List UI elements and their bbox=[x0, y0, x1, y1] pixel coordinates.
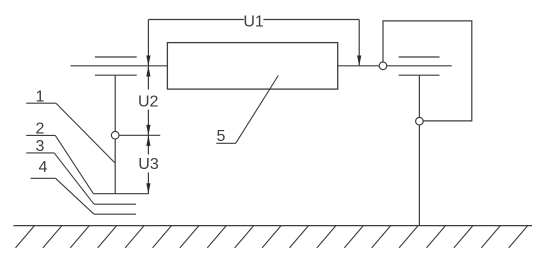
dimension line U2 bbox=[146, 66, 150, 135]
leader line 2 bbox=[26, 135, 93, 193]
wire main electrode left bbox=[71, 65, 168, 67]
wire feedback loop bbox=[383, 21, 472, 121]
extension line at node A bbox=[119, 134, 160, 136]
wire rod left upper bbox=[114, 75, 116, 131]
capacitor C2 main plate wire bbox=[387, 65, 452, 67]
dimension line U1 bbox=[146, 20, 361, 67]
leader line 5 bbox=[216, 76, 278, 144]
capacitor C2 upper plate bbox=[399, 56, 440, 58]
leader line 3 bbox=[26, 153, 94, 204]
wire box output bbox=[338, 65, 380, 67]
electrode layer 4 bbox=[94, 213, 136, 215]
capacitor C2 lower plate bbox=[399, 74, 440, 76]
ground hatching bbox=[16, 226, 528, 248]
svg-text:5: 5 bbox=[217, 128, 226, 145]
svg-text:4: 4 bbox=[39, 159, 48, 176]
capacitor C1 lower plate bbox=[95, 74, 137, 76]
capacitor C1 upper plate bbox=[95, 56, 137, 58]
electrode layer 3 bbox=[94, 203, 136, 205]
wire rod left lower bbox=[114, 139, 116, 194]
ground plane line bbox=[14, 225, 533, 227]
node C junction bbox=[416, 117, 424, 125]
leader line 1 bbox=[26, 103, 115, 163]
leader line 4 bbox=[31, 178, 94, 214]
node B junction bbox=[379, 62, 387, 70]
wire rod right lower bbox=[418, 125, 420, 226]
electrode layer 2 bbox=[93, 193, 148, 195]
svg-text:U2: U2 bbox=[138, 93, 159, 110]
node A junction bbox=[111, 131, 119, 139]
dimension line U3 bbox=[146, 135, 150, 193]
svg-text:U3: U3 bbox=[138, 156, 159, 173]
wire rod right upper bbox=[418, 75, 420, 117]
svg-text:U1: U1 bbox=[243, 13, 264, 30]
block 5 (converter box) bbox=[167, 43, 337, 90]
